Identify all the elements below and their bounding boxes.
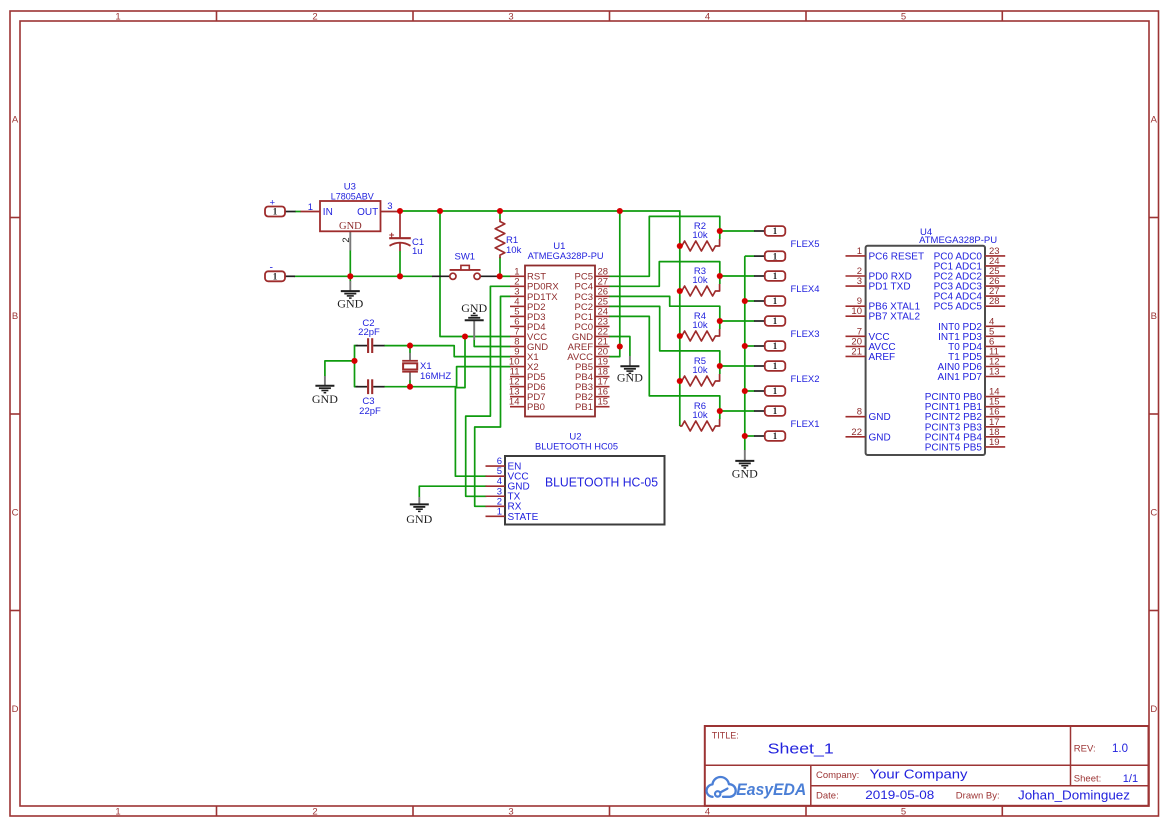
svg-text:TITLE:: TITLE:	[712, 731, 739, 741]
svg-text:1/1: 1/1	[1123, 773, 1138, 785]
junction C2-C3 / GND branch	[351, 358, 357, 364]
lead FLEX pill y=391	[754, 390, 765, 392]
svg-text:4: 4	[705, 806, 710, 817]
svg-text:22: 22	[851, 427, 862, 438]
resistor R4 10k	[680, 311, 720, 341]
lead FLEX pill y=321	[754, 320, 765, 322]
lead C3 left	[356, 386, 368, 388]
svg-text:1: 1	[773, 226, 778, 236]
junction R2 left	[677, 243, 683, 249]
svg-text:Your Company: Your Company	[870, 766, 969, 781]
svg-text:Sheet_1: Sheet_1	[768, 742, 834, 758]
svg-text:3: 3	[387, 201, 392, 212]
wire GND bottom rail	[294, 275, 433, 277]
U1 right pins 28-15	[567, 266, 609, 413]
switch SW1	[450, 252, 481, 280]
svg-text:10: 10	[851, 306, 862, 317]
U3 pin 2 lead	[349, 231, 351, 250]
resistor R3 10k	[680, 266, 720, 296]
svg-text:GND: GND	[406, 512, 432, 526]
svg-text:Sheet:: Sheet:	[1074, 774, 1101, 785]
junction FLEX1 divider	[717, 408, 723, 414]
svg-text:1: 1	[308, 202, 313, 213]
svg-text:2: 2	[312, 11, 317, 22]
svg-text:1: 1	[497, 506, 502, 517]
junction GND rail / RST	[497, 273, 503, 279]
svg-text:15: 15	[598, 397, 609, 408]
svg-text:PC6 RESET: PC6 RESET	[869, 251, 925, 262]
svg-text:1: 1	[773, 296, 778, 306]
wire U1 pin8 GND	[474, 340, 510, 347]
svg-text:GND: GND	[732, 467, 758, 481]
MCU U1 ATMEGA328P-PU	[525, 241, 604, 417]
svg-text:FLEX4: FLEX4	[791, 284, 820, 295]
svg-text:3: 3	[857, 276, 862, 287]
svg-text:1: 1	[115, 11, 120, 22]
U1 left pins 1-14	[509, 266, 559, 413]
wire U1 pin22 GND to ground	[609, 337, 630, 357]
lead SW1 left	[432, 275, 450, 277]
svg-text:D: D	[12, 704, 19, 715]
EasyEDA logo	[707, 777, 807, 799]
wire U1 PD1TX to U2 RX	[475, 296, 511, 506]
wire PC4 to FLEX4 divider	[609, 262, 720, 287]
wire PC5 to FLEX5 divider	[609, 216, 720, 276]
crystal X1 16MHZ	[402, 361, 451, 382]
junction X1 bottom node	[407, 384, 413, 390]
svg-text:FLEX5: FLEX5	[791, 239, 820, 250]
wire divider junction row y=231	[720, 230, 755, 232]
svg-text:19: 19	[989, 437, 1000, 448]
lead connector P+ to wire	[285, 211, 296, 213]
connector FLEX pill pin1 y=391	[765, 386, 786, 396]
connector FLEX pill pin1 y=346	[765, 341, 786, 351]
junction GND rail / U3 pin2	[347, 273, 353, 279]
svg-text:1.0: 1.0	[1112, 743, 1128, 755]
ground symbol at U2	[406, 497, 432, 526]
resistor R1 10k	[495, 219, 521, 258]
svg-text:GND: GND	[869, 412, 891, 423]
svg-text:1: 1	[857, 246, 862, 257]
resistor R5 10k	[680, 356, 720, 386]
lead FLEX pill y=301	[754, 300, 765, 302]
svg-text:22pF: 22pF	[359, 406, 381, 417]
connector FLEX pill pin1 y=411	[765, 406, 786, 416]
svg-text:+: +	[270, 198, 276, 209]
svg-text:A: A	[12, 114, 19, 125]
connector P+ pin 1	[265, 198, 285, 217]
junction X1 top node	[407, 343, 413, 349]
title block	[705, 726, 1149, 806]
wire U3 pin2 to GND rail	[349, 250, 351, 276]
wire C1 bottom lead to GND rail	[399, 251, 401, 276]
junction ground column 4	[742, 433, 748, 439]
junction 5V rail / VCC drop	[437, 208, 443, 214]
junction FLEX4 divider	[717, 273, 723, 279]
wire crystal bottom stub	[409, 380, 411, 387]
svg-text:5: 5	[901, 806, 906, 817]
connector FLEX pill pin1 y=321	[765, 316, 786, 326]
company text	[816, 766, 968, 781]
junction ground column 3	[742, 388, 748, 394]
svg-text:16MHZ: 16MHZ	[420, 371, 451, 382]
wire divider junction row y=411	[720, 410, 755, 412]
wire VCC branch to U2 pin5	[455, 337, 486, 477]
junction 5V rail / C1	[397, 208, 403, 214]
svg-text:SW1: SW1	[455, 252, 476, 263]
svg-text:1: 1	[773, 386, 778, 396]
junction FLEX5 divider	[717, 228, 723, 234]
junction R5 left	[677, 378, 683, 384]
junction AREF	[617, 343, 623, 349]
svg-text:10k: 10k	[692, 230, 708, 241]
svg-text:REV:: REV:	[1074, 743, 1096, 754]
svg-text:1: 1	[773, 341, 778, 351]
connector FLEX pill pin1 y=366	[765, 361, 786, 371]
capacitor C2 22pF	[358, 318, 380, 353]
svg-text:Date:: Date:	[816, 791, 839, 802]
lead connector P- to wire	[285, 275, 295, 277]
lead FLEX pill y=346	[754, 345, 765, 347]
wire U3 GND stub	[349, 276, 351, 281]
wire ground pill stub y=391	[745, 390, 755, 392]
svg-text:2019-05-08: 2019-05-08	[865, 788, 934, 802]
U2 pins 6-1	[486, 456, 539, 523]
wire 5V top rail	[399, 210, 680, 212]
svg-text:Johan_Dominguez: Johan_Dominguez	[1018, 789, 1130, 803]
svg-text:GND: GND	[461, 301, 487, 315]
ground symbol at FLEX column	[732, 450, 758, 481]
wire ground pill stub y=256.1	[745, 255, 755, 257]
svg-text:8: 8	[857, 407, 862, 418]
crystal X1 top lead	[409, 353, 411, 360]
svg-text:FLEX2: FLEX2	[791, 374, 820, 385]
U4 left pins	[846, 246, 925, 443]
svg-text:D: D	[1150, 704, 1157, 715]
svg-text:1: 1	[773, 251, 778, 261]
svg-text:1: 1	[773, 431, 778, 441]
svg-text:GND: GND	[339, 221, 362, 232]
svg-text:OUT: OUT	[357, 207, 378, 218]
capacitor C3 22pF	[359, 379, 381, 417]
svg-text:ATMEGA328P-PU: ATMEGA328P-PU	[528, 251, 604, 262]
wire R1 bottom stub	[499, 257, 501, 276]
lead FLEX pill y=366	[754, 365, 765, 367]
ground symbol at U1 pin22	[617, 356, 643, 385]
svg-text:Company:: Company:	[816, 770, 859, 781]
svg-text:10k: 10k	[692, 365, 708, 376]
U3 pin 3	[381, 201, 399, 212]
svg-text:GND: GND	[312, 392, 338, 406]
connector FLEX pill pin1 y=276	[765, 271, 786, 281]
resistor R6 10k	[680, 401, 720, 431]
svg-text:C: C	[1150, 507, 1157, 518]
wire C2 right to X1 node	[384, 345, 411, 347]
svg-text:21: 21	[851, 346, 862, 357]
junction GND rail / C1	[397, 273, 403, 279]
wire divider junction row y=366	[720, 365, 755, 367]
svg-text:10k: 10k	[692, 320, 708, 331]
MCU U4 ATMEGA328P-PU pinout	[866, 227, 998, 455]
junction R3 left	[677, 288, 683, 294]
junction 5V rail / AREF drop	[617, 208, 623, 214]
svg-text:3: 3	[508, 11, 513, 22]
svg-text:1: 1	[773, 316, 778, 326]
svg-text:1u: 1u	[412, 246, 423, 257]
svg-text:1: 1	[773, 361, 778, 371]
wire ground pill stub y=301	[745, 300, 755, 302]
svg-text:1: 1	[773, 271, 778, 281]
wire divider junction row y=321	[720, 320, 755, 322]
wire crystal GND branch	[325, 361, 355, 376]
svg-text:BLUETOOTH HC05: BLUETOOTH HC05	[535, 442, 618, 453]
connector FLEX pill pin1 y=231	[765, 226, 786, 236]
svg-text:L7805ABV: L7805ABV	[331, 191, 375, 202]
svg-text:2: 2	[312, 806, 317, 817]
svg-text:PD1 TXD: PD1 TXD	[869, 282, 911, 293]
svg-text:C: C	[12, 507, 19, 518]
resistor R2 10k	[680, 221, 720, 251]
title text Sheet_1	[712, 731, 834, 758]
connector FLEX pill pin1 y=301	[765, 296, 786, 306]
bluetooth module U2 BLUETOOTH HC05	[505, 432, 665, 525]
svg-text:STATE: STATE	[508, 512, 539, 523]
wire U2 pin4 GND branch	[419, 486, 486, 497]
svg-text:3: 3	[508, 806, 513, 817]
svg-text:EasyEDA: EasyEDA	[736, 780, 806, 799]
svg-text:10k: 10k	[692, 275, 708, 286]
junction VCC / U2 branch	[462, 333, 468, 339]
junction ground column 1	[742, 298, 748, 304]
U3 pin 1	[301, 202, 321, 213]
svg-text:14: 14	[509, 397, 520, 408]
wire U1 PD0RX to U2 TX	[466, 286, 511, 496]
svg-text:PCINT5 PB5: PCINT5 PB5	[925, 442, 983, 453]
svg-text:PC5 ADC5: PC5 ADC5	[934, 302, 983, 313]
connector FLEX pill pin1 y=256.1	[765, 251, 786, 261]
wire C2/C3 left plates vertical	[355, 345, 359, 387]
wire C3 right to X2 node	[384, 386, 411, 388]
wire PC3 to FLEX3 divider	[609, 296, 720, 321]
junction FLEX2 divider	[717, 363, 723, 369]
wire crystal X2 to U1 pin10	[410, 367, 511, 387]
svg-text:AREF: AREF	[869, 352, 896, 363]
svg-text:ATMEGA328P-PU: ATMEGA328P-PU	[919, 235, 997, 246]
svg-text:BLUETOOTH HC-05: BLUETOOTH HC-05	[545, 475, 658, 489]
wire PC1 to FLEX1 divider	[609, 316, 720, 411]
svg-text:10k: 10k	[506, 245, 522, 256]
ground symbol at U1 pin8 (inverted)	[461, 301, 487, 340]
ground symbol at crystal	[312, 376, 338, 406]
lead FLEX pill y=411	[754, 410, 765, 412]
capacitor C1 1u	[389, 211, 424, 257]
lead FLEX pill y=231	[754, 230, 765, 232]
wire SW1 to RST	[497, 275, 511, 277]
lead FLEX pill y=276	[754, 275, 765, 277]
wire R1 top stub	[499, 211, 501, 220]
connector FLEX pill pin1 y=436	[765, 431, 786, 441]
wire crystal top stub	[409, 346, 411, 354]
rev text 1.0	[1074, 743, 1128, 755]
svg-text:A: A	[1151, 114, 1158, 125]
svg-text:PB0: PB0	[527, 402, 545, 413]
wire crystal X1 to U1 pin9	[410, 346, 511, 357]
junction R4 left	[677, 333, 683, 339]
svg-text:1: 1	[773, 406, 778, 416]
wire FLEX ground column	[744, 256, 746, 450]
svg-text:B: B	[12, 311, 18, 322]
svg-text:-: -	[270, 261, 274, 273]
ground symbol at U3	[337, 281, 363, 311]
svg-text:2: 2	[341, 237, 352, 242]
lead FLEX pill y=436	[754, 435, 765, 437]
junction FLEX3 divider	[717, 318, 723, 324]
svg-text:10k: 10k	[692, 410, 708, 421]
wire VCC drop at x440	[440, 211, 511, 337]
svg-text:FLEX1: FLEX1	[791, 419, 820, 430]
lead C2 left	[356, 345, 368, 347]
lead FLEX pill y=256.1	[754, 255, 765, 257]
wire divider junction row y=276	[720, 275, 755, 277]
svg-text:4: 4	[705, 11, 710, 22]
svg-text:PB7 XTAL2: PB7 XTAL2	[869, 312, 921, 323]
svg-text:FLEX3: FLEX3	[791, 329, 820, 340]
lead C2 right	[373, 345, 384, 347]
sheet text 1/1	[1074, 773, 1138, 785]
wire 5V drop to resistor column	[679, 210, 681, 426]
connector P- pin 1	[265, 261, 285, 281]
svg-text:+: +	[389, 230, 395, 241]
lead SW1 right	[480, 275, 497, 277]
svg-text:AIN1 PD7: AIN1 PD7	[938, 372, 983, 383]
svg-text:13: 13	[989, 367, 1000, 378]
svg-text:GND: GND	[337, 297, 363, 311]
svg-text:IN: IN	[323, 207, 333, 218]
wire PC2 to FLEX2 divider	[609, 306, 720, 366]
svg-text:1: 1	[115, 806, 120, 817]
U4 right pins	[925, 246, 1005, 454]
junction ground column 2	[742, 343, 748, 349]
svg-text:22pF: 22pF	[358, 327, 380, 338]
svg-text:28: 28	[989, 296, 1000, 307]
date and drawn-by text	[816, 788, 1130, 802]
lead C3 right	[373, 386, 384, 388]
svg-text:1: 1	[273, 272, 278, 282]
svg-text:5: 5	[901, 11, 906, 22]
junction 5V rail / R1	[497, 208, 503, 214]
wire U3 pin1 gap	[295, 211, 301, 213]
svg-text:GND: GND	[869, 432, 891, 443]
wire ground pill stub y=436	[745, 435, 755, 437]
wire ground pill stub y=346	[745, 345, 755, 347]
crystal X1 bottom lead	[409, 372, 411, 380]
svg-text:GND: GND	[617, 370, 643, 384]
svg-text:PB1: PB1	[575, 402, 593, 413]
wire VCC to AREF/AVCC of U1	[609, 211, 620, 357]
svg-text:Drawn By:: Drawn By:	[956, 791, 1000, 802]
regulator U3 L7805ABV	[320, 182, 381, 233]
svg-text:B: B	[1151, 311, 1157, 322]
